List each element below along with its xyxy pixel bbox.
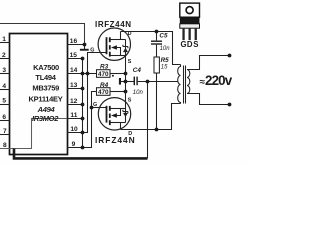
- wire drain Q1 to transformer top: [121, 32, 181, 65]
- wire pin6: [0, 120, 10, 122]
- svg-text:IRFZ44n: IRFZ44n: [183, 19, 197, 23]
- wire pin4: [0, 89, 10, 91]
- node pin14 junction B: [86, 72, 90, 76]
- IC pin number labels left 1-8: [2, 36, 7, 149]
- wire secondary top to output: [187, 56, 230, 70]
- wire center tap to bottom rail: [147, 82, 149, 159]
- svg-text:15: 15: [70, 52, 78, 59]
- TO-220 package drawing: [180, 3, 200, 49]
- wire secondary bottom to output: [187, 94, 230, 105]
- resistor R3: [97, 64, 111, 78]
- node pin10 junction: [81, 131, 85, 135]
- wire bus B gate Q1 to pin10: [88, 53, 106, 133]
- svg-text:G: G: [181, 40, 187, 49]
- wire R4 right to sources: [110, 91, 126, 93]
- IC U1 KA7500/TL494 box: [10, 34, 68, 155]
- svg-text:470: 470: [98, 89, 109, 96]
- node output terminal top: [228, 54, 232, 58]
- svg-text:470: 470: [98, 71, 109, 78]
- wire bus C R4 left to pin9: [92, 92, 97, 148]
- svg-text:R3: R3: [100, 64, 109, 71]
- wire pin14 to R3: [68, 73, 97, 75]
- svg-text:KA7500: KA7500: [33, 63, 59, 72]
- svg-text:10n: 10n: [133, 90, 144, 96]
- bottom rail: [14, 149, 148, 159]
- node R3 right: [124, 72, 128, 76]
- svg-text:G: G: [93, 102, 97, 108]
- svg-text:16: 16: [70, 38, 78, 45]
- svg-text:S: S: [193, 40, 198, 49]
- svg-text:KP1114EY: KP1114EY: [29, 94, 63, 103]
- wire C4 right to center tap: [138, 81, 178, 83]
- node pin12 junction: [81, 103, 85, 107]
- svg-text:6: 6: [2, 114, 6, 121]
- wire pin3: [0, 73, 10, 75]
- svg-text:3: 3: [2, 67, 6, 74]
- node center tap branch: [146, 80, 150, 84]
- transformer T1 primary winding: [178, 65, 181, 104]
- transformer T1 core: [184, 66, 186, 104]
- svg-text:R4: R4: [100, 82, 109, 89]
- ground symbol pin16: [84, 45, 86, 49]
- IC U1 part number text: [29, 63, 63, 123]
- wire pin16: [68, 44, 85, 46]
- transistor Q2 IRFZ44N bottom: [98, 98, 130, 130]
- svg-text:IR3MO2: IR3MO2: [32, 114, 59, 123]
- resistor R5: [154, 57, 159, 73]
- svg-text:1: 1: [2, 36, 6, 43]
- svg-text:C4: C4: [133, 67, 142, 74]
- svg-text:D: D: [187, 40, 193, 49]
- wire pin9: [68, 147, 92, 149]
- svg-text:13: 13: [70, 82, 78, 89]
- svg-text:MB3759: MB3759: [32, 84, 59, 93]
- svg-text:G: G: [90, 47, 94, 53]
- svg-text:9: 9: [72, 141, 76, 148]
- svg-text:15: 15: [161, 65, 168, 71]
- svg-text:D: D: [128, 131, 132, 137]
- svg-text:14: 14: [70, 67, 78, 74]
- node pin14 junction A: [81, 72, 85, 76]
- node C5 top: [155, 30, 159, 34]
- svg-text:A494: A494: [37, 105, 56, 114]
- wire drain Q2 to transformer bottom: [121, 104, 181, 130]
- svg-text:8: 8: [3, 142, 7, 149]
- wire pin15: [68, 58, 83, 60]
- package legs: [182, 29, 184, 40]
- wire pin1: [0, 42, 10, 44]
- node R4 right: [124, 90, 128, 94]
- node R5 bottom junction: [155, 128, 159, 132]
- svg-text:4: 4: [2, 83, 6, 90]
- svg-text:12: 12: [70, 98, 78, 105]
- wire pin7: [0, 134, 10, 136]
- svg-text:10: 10: [70, 126, 78, 133]
- node pin13 junction: [81, 87, 85, 91]
- wire pin13: [68, 88, 83, 90]
- wire sources V5 with diode verticals: [125, 40, 127, 123]
- wire top-left feedback to pin 16: [0, 24, 85, 45]
- node pin16 junction: [83, 43, 87, 47]
- IC pin number labels right 16-9: [70, 38, 78, 148]
- node C4 left / ground: [124, 80, 128, 84]
- wire pin5: [0, 104, 10, 106]
- capacitor C5: [156, 32, 158, 41]
- svg-text:11: 11: [70, 112, 77, 119]
- resistor R4: [97, 82, 111, 96]
- svg-text:7: 7: [3, 128, 7, 135]
- svg-text:10n: 10n: [160, 46, 171, 52]
- node pin9 junction: [81, 146, 85, 150]
- ground symbol sources: [121, 81, 126, 83]
- node gate Q2 junction: [90, 106, 94, 110]
- wire pin8 to pin11 step: [0, 119, 68, 149]
- node pin15 junction: [81, 57, 85, 61]
- svg-text:S: S: [128, 97, 132, 103]
- svg-text:2: 2: [2, 52, 6, 59]
- svg-text:IRFZ44N: IRFZ44N: [95, 20, 132, 29]
- svg-text:S: S: [128, 59, 132, 65]
- capacitor C4: [126, 81, 135, 83]
- wire bus A pins 15-9: [82, 59, 84, 148]
- wire pin2: [0, 58, 10, 60]
- wire pin11: [68, 118, 83, 120]
- svg-text:5: 5: [2, 98, 6, 105]
- svg-text:C5: C5: [159, 33, 168, 40]
- svg-text:R5: R5: [161, 57, 170, 64]
- svg-text:TL494: TL494: [35, 73, 56, 82]
- wire pin10: [68, 132, 88, 134]
- wire pin12: [68, 104, 83, 106]
- wire R3 right to sources: [110, 73, 126, 75]
- wire R5 bottom to drain Q2: [156, 73, 158, 130]
- node output terminal bottom: [228, 103, 232, 107]
- stray mark: [112, 75, 114, 77]
- transformer T1 secondary winding: [187, 70, 190, 94]
- svg-text:≈220v: ≈220v: [200, 73, 233, 88]
- transistor Q1 IRFZ44N top: [98, 28, 130, 60]
- wire gate Q2: [92, 107, 106, 109]
- node pin11 junction: [81, 117, 85, 121]
